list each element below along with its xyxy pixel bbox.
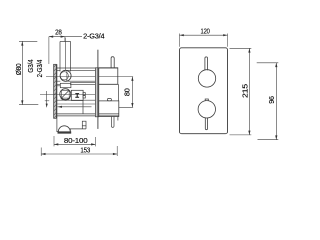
dimension 80-100 bbox=[54, 136, 95, 146]
svg-text:Ø80: Ø80 bbox=[14, 63, 23, 75]
node bottom outlet elbow bbox=[57, 118, 86, 133]
dimension 153 bbox=[41, 146, 117, 156]
wire knob profile verticals bbox=[60, 42, 71, 72]
wire knob axis vertical bbox=[64, 38, 66, 71]
svg-text:2-G3/4: 2-G3/4 bbox=[35, 60, 44, 78]
svg-text:153: 153 bbox=[80, 146, 90, 155]
node bottom handle tab bbox=[205, 99, 208, 101]
node bottom handle stem bbox=[205, 118, 207, 130]
svg-text:215: 215 bbox=[241, 84, 250, 98]
dimension 215 bbox=[230, 48, 252, 135]
wire knob top edge bbox=[60, 41, 71, 43]
node bottom port block B2 bbox=[99, 101, 119, 117]
node H-box label bbox=[71, 90, 85, 100]
node bottom stubs under B2 bbox=[112, 117, 118, 128]
dimension diameter 80 bbox=[19, 41, 38, 104]
wire body inner pair lower bbox=[57, 100, 98, 104]
wire centerline through C1 bbox=[46, 76, 118, 78]
svg-text:G3/4: G3/4 bbox=[26, 59, 35, 72]
node oval slot on B2 bbox=[107, 98, 111, 100]
dimension 80 vertical right bbox=[118, 77, 134, 108]
svg-text:80-100: 80-100 bbox=[64, 136, 88, 145]
node trim plate hatched strip bbox=[54, 64, 57, 118]
node top pipe stub with cap bbox=[111, 57, 114, 68]
svg-text:96: 96 bbox=[267, 96, 276, 104]
dimension small port leader at x=46.7 bbox=[45, 91, 49, 107]
wire rear wall line bbox=[97, 50, 99, 129]
wire bottom pipe centerline with left arrow bbox=[58, 106, 92, 108]
node valve body outline bbox=[57, 68, 119, 116]
dimension 120 bbox=[180, 34, 228, 47]
svg-text:120: 120 bbox=[201, 26, 210, 35]
node cartridge circle C2 with slash bbox=[60, 89, 71, 100]
svg-text:2-G3/4: 2-G3/4 bbox=[83, 34, 105, 41]
wire cartridge1 cylinder lines bbox=[57, 70, 98, 81]
node top handle stem bbox=[205, 57, 208, 70]
node bottom handle circle bbox=[198, 101, 215, 118]
node top port block B1 bbox=[99, 68, 118, 85]
wire body inner pair upper bbox=[70, 83, 98, 85]
svg-text:28: 28 bbox=[55, 28, 62, 37]
node rear flange band bbox=[95, 68, 98, 117]
node top handle circle bbox=[198, 70, 215, 87]
node trim plate front bbox=[180, 48, 228, 134]
wire inner vertical divider bbox=[82, 100, 84, 114]
node cartridge circle C1 bbox=[60, 70, 71, 81]
node small block between circles bbox=[60, 83, 71, 87]
dimension 28 bbox=[49, 36, 82, 65]
svg-text:80: 80 bbox=[123, 88, 132, 96]
wire right body edge between blocks bbox=[118, 84, 120, 101]
dimension 96 bbox=[257, 63, 279, 140]
wire centerline through C2 bbox=[40, 94, 95, 96]
